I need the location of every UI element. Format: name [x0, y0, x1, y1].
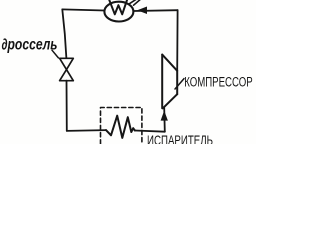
- svg-text:КОМПРЕССОР: КОМПРЕССОР: [184, 74, 253, 89]
- svg-text:ИСПАРИТЕЛЬ: ИСПАРИТЕЛЬ: [147, 132, 213, 144]
- evaporator R1 zigzag: [106, 116, 135, 138]
- condenser overshoot stroke a: [129, 0, 138, 4]
- wire bottom-left segment (corner to evaporator): [67, 129, 106, 132]
- wire left vertical (corner down to throttle valve): [62, 9, 66, 58]
- compressor Q1 trapezoid: left edge: [161, 55, 163, 109]
- flow arrow into condenser (points left): [137, 7, 147, 15]
- wire right vertical (compressor discharge up to top corner): [176, 10, 178, 71]
- svg-text:∂россель: ∂россель: [2, 37, 58, 54]
- throttle valve V1 bottom triangle: [60, 70, 74, 81]
- wire top-right segment (right corner to condenser): [133, 9, 177, 12]
- wire suction vertical (evaporator up to compressor): [163, 108, 166, 132]
- throttle valve V1 (дроссель) top triangle: [60, 58, 74, 69]
- leader line from дроссель label to valve: [52, 50, 58, 58]
- compressor Q1 trapezoid: top diagonal edge: [162, 55, 177, 71]
- leader line to compressor label: [175, 79, 184, 89]
- wire left-bottom vertical (valve down to bottom corner): [66, 81, 68, 131]
- evaporator dashed enclosure box: [101, 108, 142, 145]
- wire top-left segment (valve corner to condenser): [62, 9, 104, 10]
- condenser W zigzag symbol: [109, 0, 128, 14]
- compressor Q1 trapezoid: bottom diagonal edge: [163, 94, 177, 108]
- condenser overshoot stroke b: [134, 0, 141, 5]
- wire bottom-right segment (evaporator to suction corner): [135, 131, 165, 132]
- condenser W1 (circle with W symbol): [104, 2, 133, 22]
- compressor Q1 trapezoid: right edge: [176, 71, 178, 94]
- flow arrow into compressor (points up): [161, 111, 168, 121]
